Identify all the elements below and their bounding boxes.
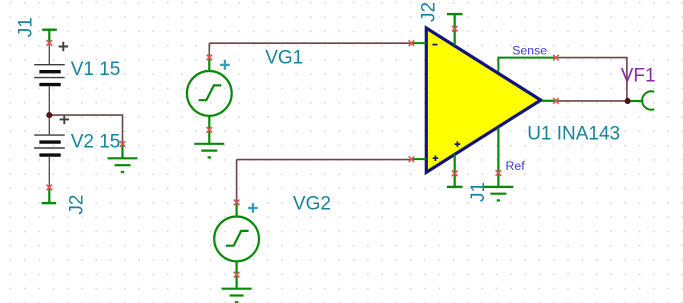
- svg-text:VG1: VG1: [265, 48, 303, 69]
- svg-text:V1 15: V1 15: [71, 59, 121, 80]
- svg-text:VF1: VF1: [621, 66, 656, 87]
- svg-text:Ref: Ref: [506, 159, 526, 173]
- svg-text:J2: J2: [67, 195, 88, 215]
- svg-text:J1: J1: [16, 17, 37, 37]
- svg-text:VG2: VG2: [293, 193, 331, 214]
- svg-text:V2 15: V2 15: [71, 132, 121, 153]
- svg-text:J1: J1: [468, 182, 489, 202]
- svg-text:U1 INA143: U1 INA143: [527, 124, 620, 145]
- svg-text:Sense: Sense: [512, 44, 547, 58]
- svg-text:J2: J2: [419, 2, 440, 22]
